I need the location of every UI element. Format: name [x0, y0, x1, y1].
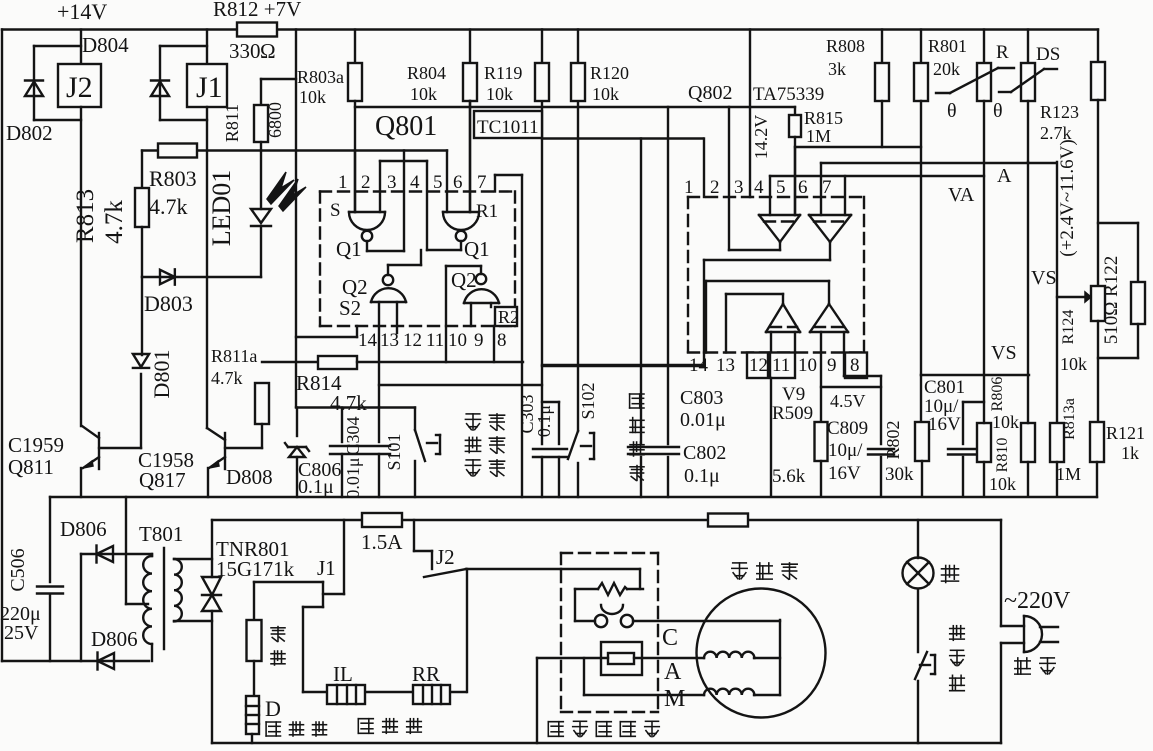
svg-text:10k: 10k [410, 84, 437, 104]
svg-text:C809: C809 [827, 418, 868, 439]
svg-text:330: 330 [229, 39, 261, 63]
svg-text:510Ω R122: 510Ω R122 [1101, 256, 1122, 345]
svg-text:Q1: Q1 [336, 237, 362, 261]
svg-text:C801: C801 [924, 377, 965, 398]
svg-text:Q801: Q801 [375, 111, 437, 142]
svg-text:5.6k: 5.6k [772, 466, 806, 487]
svg-text:C802: C802 [683, 442, 726, 464]
svg-text:A: A [997, 165, 1012, 187]
svg-text:D806: D806 [91, 627, 138, 651]
svg-text:4.7k: 4.7k [149, 194, 188, 219]
svg-text:10: 10 [798, 355, 817, 376]
svg-text:J2: J2 [436, 545, 455, 569]
svg-text:1M: 1M [806, 126, 831, 146]
svg-text:R801: R801 [928, 36, 967, 56]
svg-text:R810: R810 [994, 438, 1011, 473]
svg-text:C1959: C1959 [8, 433, 64, 457]
svg-text:R119: R119 [484, 63, 522, 83]
svg-text:1: 1 [684, 177, 694, 198]
svg-text:4.7k: 4.7k [330, 391, 367, 415]
svg-text:20k: 20k [933, 59, 960, 79]
svg-text:S2: S2 [339, 296, 361, 320]
svg-text:10: 10 [448, 330, 467, 351]
svg-text:7: 7 [477, 172, 487, 193]
svg-text:R811a: R811a [211, 346, 257, 366]
svg-text:S101: S101 [384, 433, 404, 470]
svg-text:J1: J1 [317, 556, 336, 580]
svg-text:Ω: Ω [260, 39, 276, 63]
svg-text:IL: IL [333, 662, 353, 686]
svg-text:9: 9 [827, 355, 837, 376]
svg-text:TA75339: TA75339 [753, 84, 824, 105]
svg-text:4.7k: 4.7k [101, 200, 128, 244]
svg-text:M: M [664, 686, 685, 712]
svg-text:D: D [265, 696, 281, 721]
svg-text:R802: R802 [883, 420, 903, 459]
svg-text:C803: C803 [680, 387, 723, 409]
svg-text:10k: 10k [992, 412, 1019, 432]
svg-text:4: 4 [754, 177, 764, 198]
svg-text:5: 5 [776, 177, 786, 198]
svg-text:3: 3 [734, 177, 744, 198]
svg-text:T801: T801 [139, 522, 183, 546]
svg-text:3k: 3k [828, 59, 846, 79]
svg-text:11: 11 [772, 355, 790, 376]
svg-text:+14V: +14V [57, 0, 107, 24]
svg-text:Q811: Q811 [8, 455, 54, 479]
svg-text:6800: 6800 [265, 102, 285, 138]
svg-text:Q817: Q817 [139, 468, 186, 492]
svg-text:R: R [996, 42, 1009, 63]
svg-text:14.2V: 14.2V [751, 115, 771, 160]
svg-text:θ: θ [947, 100, 957, 122]
svg-text:2: 2 [361, 172, 371, 193]
svg-text:10k: 10k [299, 87, 326, 107]
svg-text:10μ/: 10μ/ [828, 440, 863, 461]
svg-text:10k: 10k [592, 84, 619, 104]
svg-text:4.5V: 4.5V [830, 391, 866, 411]
svg-text:2: 2 [710, 177, 720, 198]
svg-text:0.1μ: 0.1μ [684, 465, 720, 487]
svg-text:0.1μ: 0.1μ [298, 476, 334, 498]
svg-text:9: 9 [474, 330, 484, 351]
svg-text:D808: D808 [226, 465, 273, 489]
svg-text:25V: 25V [4, 622, 39, 644]
svg-text:6: 6 [798, 177, 808, 198]
svg-text:15G171k: 15G171k [216, 557, 295, 581]
svg-text:4.7k: 4.7k [211, 368, 243, 388]
svg-text:V9: V9 [782, 384, 805, 405]
svg-text:8: 8 [850, 355, 860, 376]
svg-text:3: 3 [387, 172, 397, 193]
svg-text:16V: 16V [828, 463, 861, 484]
svg-text:4: 4 [410, 172, 420, 193]
svg-text:R124: R124 [1060, 310, 1077, 345]
svg-text:S: S [330, 200, 341, 221]
svg-text:(+2.4V~11.6V): (+2.4V~11.6V) [1057, 139, 1078, 256]
svg-text:0.1μ: 0.1μ [534, 405, 554, 437]
svg-text:R123: R123 [1040, 102, 1079, 122]
svg-text:10k: 10k [989, 474, 1016, 494]
svg-text:A: A [664, 659, 682, 685]
svg-text:C: C [662, 625, 678, 651]
svg-text:D806: D806 [60, 517, 107, 541]
svg-text:LED01: LED01 [207, 170, 236, 247]
svg-text:30k: 30k [885, 464, 914, 485]
svg-text:0.01μ: 0.01μ [343, 457, 363, 498]
svg-text:D801: D801 [149, 350, 174, 399]
svg-text:D804: D804 [82, 33, 129, 57]
svg-text:C304: C304 [343, 416, 363, 455]
svg-text:7: 7 [822, 177, 832, 198]
svg-text:J2: J2 [66, 71, 93, 104]
svg-text:C506: C506 [7, 548, 29, 591]
svg-text:θ: θ [993, 100, 1003, 122]
svg-text:R803: R803 [149, 166, 197, 191]
svg-text:1.5A: 1.5A [361, 530, 403, 554]
svg-text:16V: 16V [928, 414, 961, 435]
svg-text:12: 12 [749, 355, 768, 376]
svg-text:10k: 10k [1060, 354, 1087, 374]
svg-text:TC1011: TC1011 [477, 117, 539, 138]
svg-text:D803: D803 [144, 291, 193, 316]
svg-text:VS: VS [991, 342, 1017, 364]
svg-text:6: 6 [453, 172, 463, 193]
svg-text:R120: R120 [590, 63, 629, 83]
svg-text:R806: R806 [989, 377, 1006, 412]
svg-text:D802: D802 [6, 121, 53, 145]
svg-text:R812 +7V: R812 +7V [213, 0, 301, 21]
svg-text:10k: 10k [486, 84, 513, 104]
svg-text:Q2: Q2 [451, 268, 477, 292]
svg-text:R804: R804 [407, 63, 446, 83]
svg-text:~220V: ~220V [1004, 588, 1071, 614]
svg-text:VA: VA [948, 184, 975, 206]
svg-text:11: 11 [426, 330, 444, 351]
svg-text:R2: R2 [498, 307, 519, 327]
svg-text:13: 13 [716, 355, 735, 376]
svg-text:R808: R808 [826, 36, 865, 56]
svg-text:1: 1 [338, 172, 348, 193]
svg-text:R813: R813 [72, 189, 99, 243]
svg-text:Q802: Q802 [688, 82, 732, 104]
svg-text:S102: S102 [578, 382, 598, 419]
svg-text:8: 8 [497, 330, 507, 351]
svg-text:DS: DS [1036, 44, 1060, 65]
svg-text:R121: R121 [1106, 423, 1145, 443]
svg-text:13: 13 [380, 330, 399, 351]
svg-text:1k: 1k [1121, 443, 1139, 463]
svg-text:Q1: Q1 [464, 237, 490, 261]
svg-text:12: 12 [403, 330, 422, 351]
svg-text:RR: RR [412, 662, 440, 686]
svg-text:R813a: R813a [1061, 398, 1078, 440]
svg-text:J1: J1 [196, 71, 223, 104]
svg-text:R811: R811 [222, 104, 242, 142]
svg-text:R803a: R803a [297, 67, 344, 87]
svg-text:0.01μ: 0.01μ [680, 409, 726, 431]
svg-text:VS: VS [1031, 267, 1057, 289]
svg-text:R815: R815 [804, 108, 843, 128]
svg-text:14: 14 [358, 330, 378, 351]
svg-text:5: 5 [433, 172, 443, 193]
svg-text:R509: R509 [772, 403, 813, 424]
svg-text:1M: 1M [1056, 464, 1081, 484]
